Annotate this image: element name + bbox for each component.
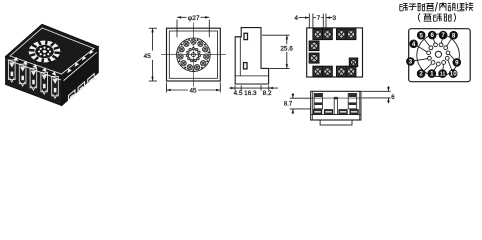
screw terminals: top row (pins 5-8): [313, 29, 356, 40]
title: terminal arrangement / internal connection: [400, 2, 473, 11]
side view: upper mounting clip: [244, 33, 248, 39]
dimensions 4 / 7 / 3: [294, 14, 336, 28]
top view: 45x45 square outline: [167, 28, 221, 81]
pin diagram: numbered terminals: [406, 31, 461, 78]
svg-text:10: 10: [450, 71, 457, 78]
svg-text:45: 45: [144, 53, 152, 60]
dimension phi-27: [177, 15, 209, 37]
dimension 6: [362, 86, 396, 103]
svg-text:16.3: 16.3: [244, 90, 257, 97]
svg-text:25.6: 25.6: [280, 45, 293, 52]
svg-text:4: 4: [412, 41, 416, 48]
svg-text:1: 1: [430, 71, 434, 78]
front view: right terminal block: [348, 93, 357, 108]
front view: lower terminal feet: [313, 110, 358, 115]
svg-text:5: 5: [419, 32, 423, 39]
isometric view of socket: [6, 24, 99, 105]
pin diagram: outer box: [409, 29, 471, 82]
side view: lower mounting clip: [244, 63, 248, 69]
svg-text:6: 6: [391, 95, 395, 101]
svg-text:6: 6: [430, 32, 434, 39]
front view: center key post: [334, 97, 337, 114]
screw terminal: right side (pin 9): [349, 58, 357, 67]
pin diagram: pin holes and connection lines: [410, 35, 456, 74]
svg-text:9: 9: [455, 60, 459, 67]
svg-text:φ27: φ27: [188, 15, 200, 22]
svg-text:4.5: 4.5: [234, 90, 243, 97]
svg-text:4: 4: [294, 15, 298, 22]
svg-text:2: 2: [419, 71, 423, 78]
svg-text:11: 11: [440, 72, 446, 78]
svg-text:7: 7: [441, 32, 445, 39]
dimensions 4.5 / 16.3 / 8.2: [229, 85, 278, 97]
front view: body outline: [311, 91, 361, 120]
screw-terminal view: outer square: [307, 28, 363, 77]
dimension 8.7: [284, 93, 311, 114]
screw terminals: bottom row (pins 2,1,11,10): [313, 66, 356, 77]
pin diagram: center keyway: [435, 51, 441, 57]
title line 2: (bottom view): [418, 13, 455, 22]
svg-text:8.2: 8.2: [263, 90, 272, 97]
side view: body outline: [235, 28, 268, 84]
svg-text:45: 45: [189, 87, 197, 94]
screw terminals: left column (pins 4,3): [309, 41, 319, 63]
svg-text:3: 3: [409, 59, 413, 66]
front view: left terminal block: [314, 93, 323, 108]
front view: bottom foot: [320, 120, 352, 125]
dimension 25.6: [262, 35, 293, 68]
top view: socket circle with pin holes: [177, 38, 211, 72]
top view: center lines: [161, 54, 226, 56]
svg-text:3: 3: [333, 15, 337, 22]
svg-text:7: 7: [317, 15, 321, 22]
svg-text:8.7: 8.7: [284, 102, 293, 108]
svg-text:8: 8: [452, 32, 456, 39]
dimension 45 horizontal: [167, 83, 221, 95]
pin diagram: socket circle: [417, 34, 460, 77]
dimension 45 vertical: [144, 28, 157, 81]
